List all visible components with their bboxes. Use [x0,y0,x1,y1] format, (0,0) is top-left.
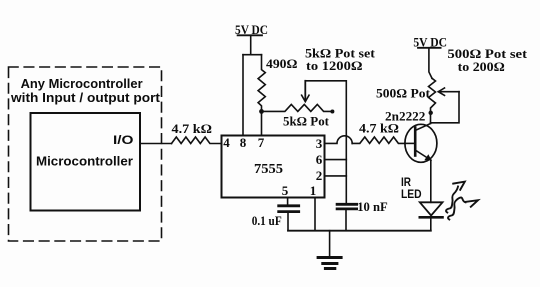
microcontroller box [31,113,141,211]
IR emission arrow 2 [448,198,466,220]
svg-text:500Ω Pot: 500Ω Pot [376,86,431,101]
svg-text:5: 5 [282,183,289,198]
svg-text:10 nF: 10 nF [357,199,388,214]
svg-text:to 200Ω: to 200Ω [458,59,505,74]
wire junction to pin 7 [261,111,263,135]
svg-text:6: 6 [316,152,323,167]
wire pin 3 with hop over vertical [325,136,353,144]
wire pin 1 to ground rail [314,198,316,231]
wire wiper to pins 6,2 and 10nF [305,81,346,204]
5k pot right terminal dot [330,110,334,114]
ground symbol stem [329,231,331,257]
wire I/O to R1 [140,143,172,145]
svg-text:LED: LED [401,187,422,201]
wiper return loop [431,92,460,123]
ground rail [288,230,431,232]
svg-text:0.1 uF: 0.1 uF [252,213,282,228]
svg-text:490Ω: 490Ω [266,56,297,71]
resistor R2 4.7k (base) [352,137,405,143]
capacitor 0.1uF lead from pin 5 [287,198,289,206]
500 pot bottom junction dot [429,111,433,115]
resistor 490 Ohm (vertical) [258,55,265,112]
5V DC rail underline (left) [238,34,262,36]
svg-text:2: 2 [316,168,323,183]
svg-text:3: 3 [316,136,323,151]
wire 5V to pin 8 [242,55,244,136]
IC U1 7555 body [222,136,325,198]
transistor Q1 2n2222 [405,124,437,162]
pin 6 stub [325,159,347,161]
microcontroller dashed enclosure [9,67,162,241]
wire emitter to LED [430,160,432,202]
5V DC rail underline (right) [418,47,441,49]
svg-text:5kΩ Pot: 5kΩ Pot [283,114,330,129]
5V distribution bar [243,54,262,56]
svg-text:4.7 kΩ: 4.7 kΩ [172,121,213,136]
potentiometer 500 Ohm (vertical) [429,78,436,111]
svg-text:1: 1 [310,183,317,198]
svg-text:8: 8 [240,135,247,150]
IR emission arrow 1 [446,187,458,213]
resistor R1 4.7k [172,137,222,144]
svg-text:to 1200Ω: to 1200Ω [306,58,363,73]
potentiometer 5k (horizontal) [262,104,333,111]
capacitor 10nF plates [337,203,357,206]
5V DC stem (left) [250,35,252,54]
svg-text:4: 4 [223,135,230,150]
500 pot wiper arrow [439,91,460,93]
capacitor 0.1uF lower lead [287,213,289,231]
svg-text:Microcontroller: Microcontroller [36,154,133,168]
5k pot wiper arrow [304,81,306,101]
wire pot bottom to collector [430,111,432,123]
svg-text:I/O: I/O [113,133,134,147]
capacitor 10nF lower lead [345,210,347,231]
5V DC stem (right) [429,48,432,79]
svg-text:Any Microcontroller: Any Microcontroller [21,76,143,91]
pin 2 stub [325,175,347,177]
IR LED D1 [420,202,443,215]
ground symbol bars [318,256,341,259]
svg-text:2n2222: 2n2222 [385,109,425,124]
capacitor 0.1uF plates [279,204,299,207]
svg-text:with Input / output port: with Input / output port [10,90,161,105]
svg-text:7555: 7555 [254,161,283,176]
node junction: 490/pot/pin7 [259,109,264,114]
svg-text:7: 7 [258,135,265,150]
